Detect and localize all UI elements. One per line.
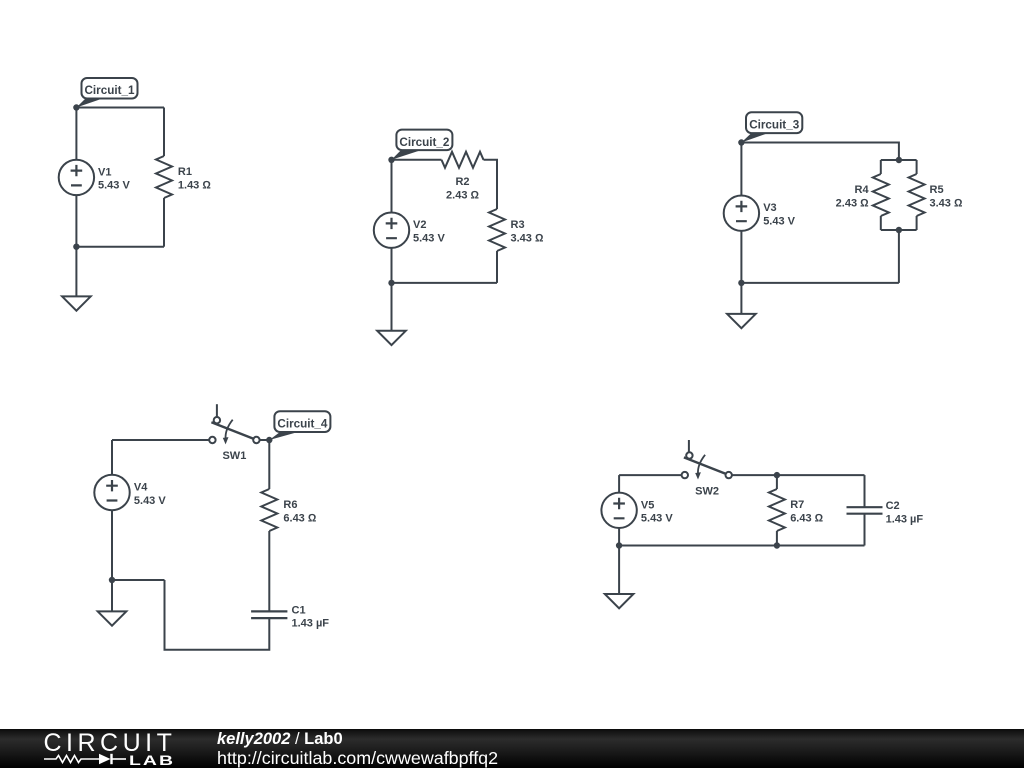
ground (c3) bbox=[727, 283, 756, 328]
wire bottom (c5) bbox=[619, 545, 864, 547]
node C5R7 (R7 bottom junction) bbox=[774, 542, 780, 548]
wire right-top (c4) bbox=[268, 440, 270, 489]
node A1 (top-left junction) bbox=[73, 104, 79, 110]
svg-text:3.43 Ω: 3.43 Ω bbox=[511, 233, 544, 245]
svg-text:V3: V3 bbox=[763, 202, 776, 214]
wire top (c3) bbox=[741, 143, 899, 161]
wire left-bottom (c4) bbox=[111, 510, 113, 580]
label flag Circuit_4 bbox=[269, 411, 330, 440]
node U3 (parallel bottom junction) bbox=[896, 227, 902, 233]
wire C2 top lead bbox=[864, 475, 866, 507]
svg-text:1.43 µF: 1.43 µF bbox=[886, 514, 924, 526]
svg-text:SW1: SW1 bbox=[222, 450, 246, 462]
node B3 (bottom junction) bbox=[738, 280, 744, 286]
footer line 1 bbox=[217, 730, 343, 749]
svg-text:R2: R2 bbox=[455, 176, 469, 188]
wire C1-bottom (c4) bbox=[165, 580, 270, 650]
voltage source V4 bbox=[94, 475, 166, 510]
svg-text:R5: R5 bbox=[930, 184, 944, 196]
ground (c2) bbox=[377, 283, 406, 345]
wire top (c4 left) bbox=[112, 439, 209, 441]
svg-text:6.43 Ω: 6.43 Ω bbox=[790, 512, 823, 524]
wire R5 top lead bbox=[916, 160, 918, 174]
wire bottom-link (c4) bbox=[112, 579, 165, 581]
node T3 (parallel top junction) bbox=[896, 157, 902, 163]
node B4 (bottom junction) bbox=[109, 577, 115, 583]
svg-text:5.43 V: 5.43 V bbox=[134, 495, 166, 507]
footer line 2 bbox=[217, 748, 498, 768]
wire left-top (c3) bbox=[740, 143, 742, 196]
svg-text:5.43 V: 5.43 V bbox=[413, 233, 445, 245]
svg-text:V5: V5 bbox=[641, 499, 654, 511]
node B1 (bottom junction) bbox=[73, 244, 79, 250]
svg-text:Circuit_3: Circuit_3 bbox=[749, 119, 800, 132]
svg-text:V4: V4 bbox=[134, 482, 148, 494]
svg-text:Circuit_4: Circuit_4 bbox=[277, 417, 328, 430]
resistor R4 bbox=[836, 174, 889, 216]
label flag Circuit_1 bbox=[76, 78, 137, 108]
wire R7 top lead bbox=[776, 475, 778, 489]
ground (c1) bbox=[62, 247, 91, 311]
svg-text:1.43 Ω: 1.43 Ω bbox=[178, 180, 211, 192]
capacitor C2 bbox=[847, 500, 924, 525]
ground (c5) bbox=[605, 546, 634, 609]
wire top-right (c2) bbox=[484, 160, 498, 209]
wire left-bottom (c2) bbox=[391, 248, 393, 283]
wire parallel top bar bbox=[881, 159, 917, 161]
svg-text:C2: C2 bbox=[886, 500, 900, 512]
capacitor C1 bbox=[251, 604, 329, 629]
wire switch-to-node (c4) bbox=[260, 439, 270, 441]
svg-text:R1: R1 bbox=[178, 166, 192, 178]
wire bottom (c2) bbox=[392, 282, 498, 284]
svg-text:R3: R3 bbox=[511, 219, 525, 231]
voltage source V1 bbox=[59, 160, 131, 195]
switch SW1 bbox=[209, 404, 259, 462]
wire switch-to-R7 (c5) bbox=[732, 474, 865, 476]
svg-text:6.43 Ω: 6.43 Ω bbox=[283, 512, 316, 524]
wire top (c1) bbox=[76, 107, 164, 109]
resistor R2 bbox=[442, 152, 484, 202]
voltage source V3 bbox=[724, 196, 796, 231]
wire parallel bottom bar bbox=[881, 229, 917, 231]
svg-text:3.43 Ω: 3.43 Ω bbox=[930, 197, 963, 209]
wire bottom (c1) bbox=[76, 246, 164, 248]
wire left-bottom (c3) bbox=[740, 231, 742, 283]
wire R5 bottom lead bbox=[916, 216, 918, 230]
svg-text:C1: C1 bbox=[292, 604, 306, 616]
footer bar bbox=[0, 729, 1024, 768]
wire top-left (c2) bbox=[392, 159, 442, 161]
ground (c4) bbox=[98, 580, 127, 626]
resistor R6 bbox=[261, 489, 317, 531]
label flag Circuit_2 bbox=[392, 130, 453, 160]
wire right-bottom (c2) bbox=[496, 251, 498, 283]
node A5 (R7 top junction) bbox=[774, 472, 780, 478]
node A4 (right of switch) bbox=[266, 437, 272, 443]
node B5 (bottom junction) bbox=[616, 542, 622, 548]
wire left-top (c4) bbox=[111, 440, 113, 475]
resistor R5 bbox=[909, 174, 963, 216]
svg-text:1.43 µF: 1.43 µF bbox=[292, 618, 330, 630]
wire left-bottom (c1) bbox=[75, 195, 77, 247]
wire right-top (c1) bbox=[163, 108, 165, 157]
svg-text:R7: R7 bbox=[790, 499, 804, 511]
wire left-top (c5) bbox=[618, 475, 620, 493]
svg-text:V1: V1 bbox=[98, 166, 111, 178]
label flag Circuit_3 bbox=[741, 112, 802, 142]
wire right-bottom (c3) bbox=[898, 230, 900, 283]
svg-text:5.43 V: 5.43 V bbox=[98, 180, 130, 192]
wire bottom (c3) bbox=[741, 282, 899, 284]
svg-text:5.43 V: 5.43 V bbox=[641, 513, 673, 525]
svg-text:V2: V2 bbox=[413, 219, 426, 231]
wire right-bottom (c1) bbox=[163, 198, 165, 247]
wire left-bottom (c5) bbox=[618, 528, 620, 546]
wire C2 bottom lead bbox=[864, 514, 866, 546]
svg-text:Circuit_2: Circuit_2 bbox=[399, 136, 450, 149]
voltage source V5 bbox=[601, 493, 673, 528]
node A2 (top-left junction) bbox=[388, 157, 394, 163]
wire left-top (c1) bbox=[75, 108, 77, 160]
wire left-top (c2) bbox=[391, 160, 393, 213]
switch SW2 bbox=[682, 440, 732, 498]
wire R7 bottom lead bbox=[776, 531, 778, 546]
logo LAB bbox=[129, 752, 175, 768]
svg-text:2.43 Ω: 2.43 Ω bbox=[446, 189, 479, 201]
svg-text:R6: R6 bbox=[283, 499, 297, 511]
logo CIRCUIT bbox=[44, 729, 177, 758]
logo symbol (resistor + diode) bbox=[44, 752, 130, 766]
svg-text:SW2: SW2 bbox=[695, 486, 719, 498]
svg-text:5.43 V: 5.43 V bbox=[763, 216, 795, 228]
svg-text:R4: R4 bbox=[855, 184, 870, 196]
resistor R7 bbox=[769, 489, 824, 531]
node A3 (top-left junction) bbox=[738, 139, 744, 145]
wire R4 bottom lead bbox=[880, 216, 882, 230]
wire R6-to-C1 (c4) bbox=[268, 531, 270, 611]
svg-text:2.43 Ω: 2.43 Ω bbox=[836, 197, 869, 209]
voltage source V2 bbox=[374, 213, 446, 248]
node B2 (bottom junction) bbox=[388, 280, 394, 286]
wire R4 top lead bbox=[880, 160, 882, 174]
svg-text:Circuit_1: Circuit_1 bbox=[84, 84, 135, 97]
resistor R3 bbox=[489, 209, 544, 251]
resistor R1 bbox=[156, 156, 211, 198]
wire top-left (c5) bbox=[619, 474, 682, 476]
